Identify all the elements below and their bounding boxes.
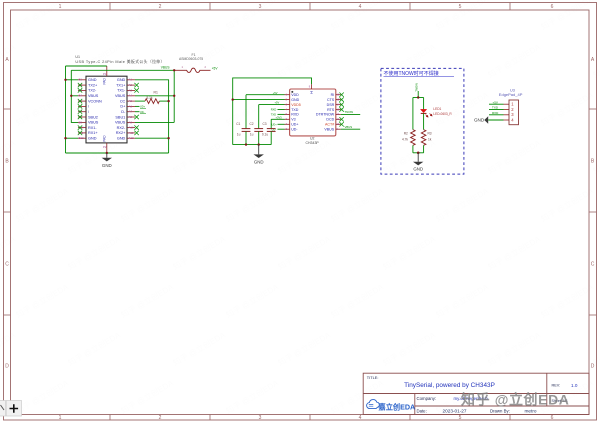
svg-text:A6: A6 [129, 104, 133, 108]
U2 pin numbers [286, 94, 340, 132]
svg-text:GND: GND [254, 159, 264, 164]
U1 no-connect X marks left [78, 83, 82, 135]
svg-text:3: 3 [259, 4, 262, 10]
svg-text:A8: A8 [129, 115, 133, 119]
svg-text:UD-: UD- [272, 127, 277, 131]
wire A9 VBUS [135, 121, 174, 123]
wire bottom GND rail [66, 152, 169, 154]
wire DTR/TNOW out [341, 113, 360, 115]
wire TXD stub [278, 109, 285, 111]
svg-text:PAD: PAD [103, 77, 107, 84]
wire RXD pin3 [489, 114, 504, 116]
wire GND loop top (V1 to EP pad) [233, 78, 312, 145]
svg-text:6: 6 [551, 415, 554, 421]
U2 top pad pin [311, 84, 313, 89]
svg-text:5: 5 [459, 4, 462, 10]
svg-text:DTRTNOW: DTRTNOW [316, 113, 335, 117]
svg-text:V3: V3 [291, 118, 295, 122]
wire VBUS vertical right [173, 70, 175, 122]
svg-text:知乎 @立创EDA: 知乎 @立创EDA [461, 392, 570, 408]
svg-text:5.1k: 5.1k [147, 96, 153, 100]
svg-text:VCONN: VCONN [88, 99, 102, 103]
wire A1 GND [135, 80, 169, 153]
svg-text:1.0: 1.0 [571, 383, 578, 388]
svg-text:Company:: Company: [417, 396, 437, 401]
wire B1 stub [66, 79, 79, 81]
ground symbol U1 [102, 153, 112, 168]
svg-text:B12: B12 [79, 136, 84, 140]
svg-text:UD+: UD+ [291, 123, 298, 127]
svg-text:+5V: +5V [273, 91, 278, 95]
U2 pin names [291, 93, 301, 132]
svg-text:TNOW: TNOW [345, 110, 354, 114]
svg-text:B4: B4 [79, 94, 83, 98]
wire B12 stub [66, 137, 79, 139]
svg-text:TXD: TXD [492, 106, 499, 110]
capacitor C3 [262, 119, 276, 144]
svg-text:C1: C1 [236, 122, 240, 126]
svg-text:VBUS: VBUS [161, 66, 170, 70]
U3 pin stubs [504, 104, 510, 120]
wire top VBUS to fuse [71, 69, 174, 71]
resistor R2 [402, 130, 415, 146]
svg-text:Date:: Date: [417, 408, 427, 413]
svg-text:2023-01-27: 2023-01-27 [443, 409, 467, 414]
svg-text:CTS: CTS [327, 98, 335, 102]
svg-text:A10: A10 [129, 126, 134, 130]
ground symbol TNOW box [413, 153, 423, 172]
svg-text:GND: GND [117, 78, 126, 82]
svg-text:VBUS: VBUS [88, 121, 99, 125]
wire split top [413, 97, 424, 99]
wire R1 to GND vertical [159, 100, 168, 102]
svg-text:RXD: RXD [291, 113, 299, 117]
svg-text:VBUS: VBUS [115, 121, 126, 125]
svg-text:1k: 1k [428, 138, 432, 142]
svg-text:D: D [5, 364, 9, 370]
svg-text:GND: GND [117, 137, 126, 141]
svg-text:1: 1 [59, 4, 62, 10]
svg-text:RI: RI [331, 93, 335, 97]
svg-text:6: 6 [551, 4, 554, 10]
svg-text:metro: metro [525, 409, 537, 414]
svg-text:TXD: TXD [291, 108, 299, 112]
wire TNOW drop [417, 91, 419, 98]
svg-text:A9: A9 [129, 120, 133, 124]
wire A12 GND [135, 137, 169, 139]
wire GND pin4 [488, 119, 503, 121]
svg-text:C: C [5, 262, 9, 268]
wire right branch upper [423, 98, 425, 110]
svg-text:EdgePad_4P: EdgePad_4P [499, 92, 523, 97]
svg-text:R2: R2 [404, 132, 408, 136]
svg-text:3: 3 [259, 415, 262, 421]
big watermark bottom right [461, 392, 570, 408]
svg-text:A4: A4 [129, 94, 133, 98]
svg-text:C2: C2 [250, 122, 254, 126]
svg-text:GND: GND [413, 167, 423, 172]
svg-text:VBUS: VBUS [88, 94, 99, 98]
svg-text:4: 4 [359, 415, 362, 421]
svg-text:RX2-: RX2- [117, 126, 126, 130]
wire VBUS out [341, 128, 360, 130]
svg-text:VBUS: VBUS [345, 125, 353, 129]
annotation dashed box [381, 68, 464, 174]
wire D+ stub [135, 105, 140, 107]
svg-text:2: 2 [159, 4, 162, 10]
svg-text:+5V: +5V [212, 66, 219, 70]
wire CC to R1 [135, 100, 145, 102]
U1 bottom pad pin P2 [106, 143, 108, 153]
svg-text:TXD: TXD [271, 113, 276, 117]
wire cap bottom rail [233, 144, 272, 146]
wire UD+ stub [278, 123, 285, 125]
wire LED to R3 [423, 113, 425, 129]
wire VDD row from C1 [246, 94, 285, 96]
ground flag U3 [474, 116, 488, 123]
svg-text:CH343P: CH343P [306, 141, 320, 145]
U1 no-connect X marks right [134, 83, 138, 135]
svg-text:C3: C3 [263, 122, 267, 126]
svg-text:RX2+: RX2+ [116, 131, 126, 135]
U1 pin numbers [79, 72, 134, 149]
svg-text:C: C [591, 262, 595, 268]
svg-text:R1: R1 [154, 90, 158, 94]
svg-text:Drawn By:: Drawn By: [490, 408, 510, 413]
svg-text:RTS: RTS [327, 108, 335, 112]
logo LCEDA [367, 400, 416, 412]
svg-text:TX2-: TX2- [88, 89, 97, 93]
svg-text:+3V3: +3V3 [276, 115, 283, 119]
svg-text:D: D [591, 364, 595, 370]
svg-text:DCD: DCD [326, 118, 334, 122]
svg-text:A11: A11 [129, 131, 134, 135]
svg-text:A5: A5 [129, 99, 133, 103]
svg-text:RXD: RXD [492, 111, 499, 115]
svg-text:UD-: UD- [291, 128, 298, 132]
U1 top pad pin P1 [106, 66, 108, 76]
svg-text:ACT#: ACT# [325, 123, 334, 127]
wire B1 B12 GND left [65, 66, 67, 153]
wire GND pin row [233, 99, 285, 101]
wire TXD pin2 [489, 109, 504, 111]
svg-text:RXD: RXD [271, 108, 277, 112]
svg-text:P1: P1 [103, 72, 107, 76]
svg-text:1u: 1u [237, 133, 241, 137]
wire D- stub [135, 111, 140, 113]
svg-text:4: 4 [359, 4, 362, 10]
svg-text:RX1-: RX1- [88, 126, 97, 130]
svg-text:SBU1: SBU1 [115, 115, 125, 119]
wire GND top loop to PAD [66, 65, 107, 67]
svg-text:A1: A1 [129, 78, 133, 82]
svg-text:+5V: +5V [275, 101, 280, 105]
svg-text:CC: CC [120, 99, 126, 103]
U1 pin stubs left [78, 80, 86, 138]
svg-text:B9: B9 [79, 120, 83, 124]
svg-text:A3: A3 [129, 88, 133, 92]
svg-text:GND: GND [88, 137, 97, 141]
LED LED1 [421, 107, 453, 117]
svg-text:D+: D+ [120, 105, 126, 109]
svg-text:2: 2 [159, 415, 162, 421]
svg-text:5: 5 [459, 415, 462, 421]
capacitor C1 [236, 95, 250, 145]
resistor R3 [421, 130, 432, 146]
svg-text:GND: GND [291, 98, 299, 102]
svg-text:U1: U1 [75, 55, 80, 59]
connector U1 body [86, 76, 127, 143]
svg-text:VDD: VDD [291, 93, 299, 97]
svg-text:TNOW: TNOW [415, 83, 419, 92]
svg-text:UD+: UD+ [272, 122, 278, 126]
svg-text:USB Type-C 24Pin Male 美板式公头（拉伸: USB Type-C 24Pin Male 美板式公头（拉伸） [75, 59, 164, 64]
junction dots [232, 98, 260, 145]
svg-text:GND: GND [474, 118, 485, 123]
svg-text:VBUS: VBUS [324, 128, 334, 132]
svg-text:PAD: PAD [103, 135, 107, 142]
wire V3 row from C3 [271, 118, 284, 120]
svg-text:TITLE:: TITLE: [367, 375, 379, 380]
svg-text:A7: A7 [129, 110, 133, 114]
svg-text:1: 1 [59, 415, 62, 421]
svg-text:4.7k: 4.7k [402, 138, 408, 142]
svg-text:LED1: LED1 [433, 107, 441, 111]
svg-text:R3: R3 [428, 132, 432, 136]
svg-text:TinySerial, powered by CH343P: TinySerial, powered by CH343P [404, 382, 495, 389]
svg-text:A12: A12 [129, 136, 134, 140]
U2 pin stubs left [285, 95, 290, 130]
fuse F1 [174, 53, 210, 72]
svg-text:VBUS: VBUS [115, 94, 126, 98]
U2 pin1 dot [291, 91, 293, 93]
svg-text:TX1+: TX1+ [116, 83, 126, 87]
wire A4 VBUS [135, 95, 174, 97]
svg-text:P2: P2 [103, 145, 107, 149]
wire B4 B9 VBUS left [71, 70, 78, 122]
U3 pin numbers [511, 102, 514, 123]
wire B4 stub [71, 95, 78, 97]
capacitor C2 [250, 105, 264, 145]
wire +5V pin1 [489, 103, 504, 105]
svg-text:1u: 1u [250, 133, 254, 137]
svg-text:A2: A2 [129, 83, 133, 87]
resistor R1 [145, 90, 159, 103]
zoom control UI overlay [0, 401, 22, 417]
svg-text:+5V: +5V [493, 100, 498, 104]
svg-text:RX1+: RX1+ [88, 131, 98, 135]
svg-text:DSR: DSR [327, 103, 335, 107]
U1 pin stubs right [127, 80, 135, 138]
connector U1 designator [75, 55, 164, 64]
svg-text:不使用TNOW时可不焊接: 不使用TNOW时可不焊接 [384, 70, 439, 77]
U2 no-connect X right [339, 93, 343, 127]
svg-text:REV:: REV: [552, 384, 561, 388]
ic U2 body [290, 89, 336, 136]
wire R3 bottom [423, 145, 425, 153]
svg-text:VDD5: VDD5 [291, 103, 301, 107]
svg-text:B1: B1 [79, 78, 83, 82]
junction dots [417, 96, 420, 154]
svg-text:TX2+: TX2+ [88, 83, 98, 87]
svg-text:LED-0603_R: LED-0603_R [433, 112, 452, 116]
wire UD- stub [278, 128, 285, 130]
svg-text:TX1-: TX1- [117, 89, 126, 93]
U1 pin names [88, 78, 102, 140]
wire RXD stub [278, 113, 285, 115]
svg-text:ASMD0603-075: ASMD0603-075 [179, 57, 203, 61]
U2 pin stubs right [336, 95, 341, 130]
svg-text:GND: GND [102, 163, 112, 168]
wire VDD5 row from C2 [259, 104, 285, 106]
wire left branch upper [412, 98, 414, 130]
svg-text:GND: GND [88, 78, 97, 82]
ground symbol U2 [254, 145, 264, 165]
wire join bottom [413, 152, 424, 154]
U1 PAD pin labels [103, 77, 107, 141]
connector U3 body [509, 100, 519, 125]
wire R2 bottom [412, 145, 414, 153]
svg-text:嘉立创EDA: 嘉立创EDA [378, 402, 416, 411]
junction dots [64, 69, 175, 154]
svg-text:0.1u: 0.1u [262, 133, 268, 137]
svg-text:SBU2: SBU2 [88, 115, 98, 119]
title block grid [363, 373, 589, 414]
